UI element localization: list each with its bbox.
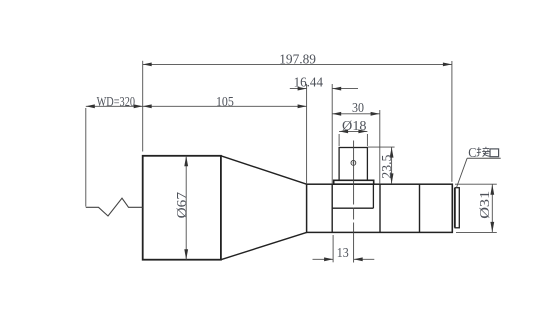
dim 105 (143, 105, 307, 107)
front barrel body Ø67 (143, 156, 221, 260)
svg-text:Ø18: Ø18 (342, 119, 367, 134)
cone top edge (221, 156, 307, 184)
screw hole circle (351, 161, 356, 166)
dim Ø31 (491, 184, 493, 232)
svg-text:105: 105 (216, 95, 234, 110)
object plane zigzag (86, 198, 143, 216)
leader line to C-mount (457, 158, 468, 187)
dim 16.44 outside arrows (290, 88, 307, 90)
glyph 接 (477, 147, 490, 157)
dim 23.5 (391, 147, 393, 184)
C-mount flange face (451, 184, 453, 232)
dim 197.89 (143, 63, 452, 65)
Ø18 ext line right (366, 134, 368, 146)
svg-text:Ø67: Ø67 (174, 192, 189, 219)
barrel section line A (331, 184, 333, 232)
top protrusion box (339, 148, 367, 181)
main barrel outline (307, 184, 453, 232)
cone bottom edge (221, 232, 307, 259)
Ø18 ext line left (338, 134, 340, 146)
ext line section A upper (331, 84, 333, 184)
dim WD=320 (86, 105, 143, 107)
barrel section line C (419, 184, 421, 232)
dim Ø67 (185, 156, 187, 260)
ext line C flange upper (451, 61, 453, 182)
Ø31 top ext line (455, 183, 497, 185)
top flange bar (334, 180, 374, 184)
svg-text:197.89: 197.89 (279, 53, 316, 68)
ext line section B upper (379, 110, 381, 184)
svg-text:23.5: 23.5 (379, 154, 394, 178)
Ø31 bottom ext line (456, 231, 497, 233)
label underline (467, 157, 501, 159)
dim 23.5 top ext (367, 146, 394, 148)
focus step notch vertical (372, 184, 374, 208)
svg-text:16.44: 16.44 (294, 76, 323, 91)
ext line cone end upper (306, 84, 308, 184)
WD extension line (85, 108, 87, 207)
glyph 口 (490, 149, 499, 157)
svg-text:WD=320: WD=320 (97, 95, 135, 110)
dim 13 outside arrows (313, 258, 334, 260)
barrel section line B (379, 184, 381, 232)
center line through protrusion (353, 141, 355, 263)
svg-text:13: 13 (337, 246, 349, 261)
focus step notch bottom (332, 207, 373, 209)
C-mount thread tube (455, 188, 459, 228)
svg-text:Ø31: Ø31 (477, 191, 492, 219)
dim 13 ext line (332, 235, 334, 262)
dim Ø18 (339, 130, 367, 132)
svg-text:30: 30 (352, 101, 364, 116)
dim 30 (332, 113, 379, 115)
ext line front face upper (142, 61, 144, 152)
